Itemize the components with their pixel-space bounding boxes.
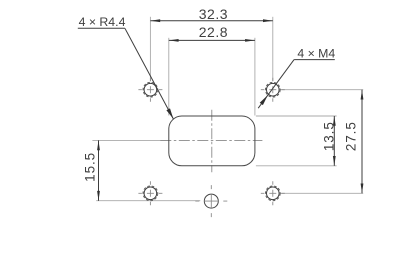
extension line left of 32.3 dim bbox=[149, 17, 151, 81]
svg-text:4 × M4: 4 × M4 bbox=[297, 46, 335, 60]
extension line bottom of 13.5 dim bbox=[256, 165, 337, 167]
hole M4 top-left bbox=[144, 83, 157, 96]
hole M4 bottom-left bbox=[144, 187, 157, 200]
cutout vertical centerline bbox=[211, 110, 213, 173]
leader line for R4.4 bbox=[78, 27, 125, 29]
svg-text:22.8: 22.8 bbox=[199, 24, 228, 40]
panel cutout rounded rectangle bbox=[169, 116, 255, 166]
extension line top of 13.5 dim bbox=[256, 115, 337, 117]
extension line bottom of 15.5 dim bbox=[96, 200, 200, 202]
dimension line 32.3 bbox=[150, 20, 272, 22]
extension line bottom of 27.5 dim bbox=[280, 192, 363, 194]
svg-text:13.5: 13.5 bbox=[321, 121, 336, 151]
dimension line 15.5 bbox=[98, 140, 100, 200]
svg-text:4 × R4.4: 4 × R4.4 bbox=[79, 15, 126, 29]
dimension line 27.5 bbox=[361, 90, 363, 194]
extension line top of 27.5 dim bbox=[280, 89, 363, 91]
dimension line 22.8 bbox=[169, 39, 255, 41]
extension line right of 32.3 dim bbox=[272, 17, 274, 81]
extension line top of 15.5 dim bbox=[92, 139, 168, 141]
svg-text:32.3: 32.3 bbox=[199, 6, 228, 22]
extension line left of 22.8 dim bbox=[168, 38, 170, 116]
center hole bbox=[204, 194, 218, 208]
hole M4 top-right bbox=[267, 83, 280, 96]
leader line for M4 bbox=[294, 59, 335, 61]
svg-text:27.5: 27.5 bbox=[344, 121, 359, 151]
cutout horizontal centerline bbox=[160, 139, 262, 141]
hole M4 bottom-right bbox=[267, 187, 280, 200]
svg-text:15.5: 15.5 bbox=[83, 152, 98, 182]
dimension line 13.5 bbox=[333, 116, 335, 166]
extension line right of 22.8 dim bbox=[254, 38, 256, 116]
